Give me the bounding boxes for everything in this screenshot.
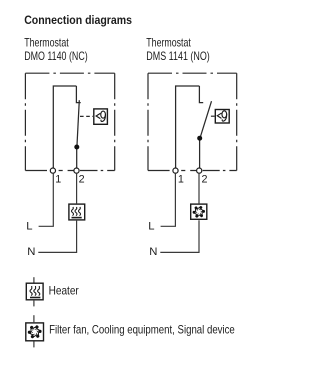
wire: L lead to terminal 1 (DMS) xyxy=(161,173,176,226)
wire: terminal 2 down to heater (DMO) xyxy=(76,173,78,203)
svg-text:Thermostat: Thermostat xyxy=(24,35,69,49)
terminal 1 (DMO) xyxy=(50,168,55,173)
legend fan symbol xyxy=(26,315,44,347)
filter fan load symbol (right circuit) xyxy=(191,204,207,219)
terminal 1 (DMS) xyxy=(173,168,178,173)
svg-text:Filter fan, Cooling equipment,: Filter fan, Cooling equipment, Signal de… xyxy=(49,323,235,337)
svg-text:L: L xyxy=(148,221,154,233)
svg-text:1: 1 xyxy=(55,174,61,186)
svg-text:Connection diagrams: Connection diagrams xyxy=(24,13,132,27)
wire: left riser from terminal 1 and top rail (DMS) xyxy=(176,86,200,171)
legend heater symbol xyxy=(26,277,43,306)
heater load symbol (left circuit) xyxy=(69,204,85,220)
svg-text:L: L xyxy=(26,221,32,233)
mechanical link dashes to thermal actuator (DMO) xyxy=(80,115,93,117)
svg-text:N: N xyxy=(27,246,35,258)
thermal actuator box <ϑ (DMS) xyxy=(215,110,229,124)
wire: heater to N lead (DMO) xyxy=(38,221,76,253)
svg-text:N: N xyxy=(149,246,157,258)
svg-text:DMS 1141 (NO): DMS 1141 (NO) xyxy=(146,49,210,63)
svg-text:DMO 1140 (NC): DMO 1140 (NC) xyxy=(24,49,87,63)
thermal actuator box <ϑ (DMO) xyxy=(94,109,108,124)
switch blade NO open (DMS) xyxy=(200,101,212,139)
node: blade junction dot (DMS) xyxy=(197,136,202,141)
thermostat DMS 1141 enclosure (dash-dot boundary) xyxy=(148,73,237,170)
wire: left riser from terminal 1 and top rail (DMO) xyxy=(53,86,76,171)
wire: blade node to terminal 2 (DMO) xyxy=(76,147,78,171)
terminal 2 (DMO) xyxy=(74,168,79,173)
fixed contact with foot (DMO) xyxy=(76,86,80,103)
svg-text:2: 2 xyxy=(79,174,85,186)
thermostat DMO 1140 enclosure (dash-dot boundary) xyxy=(25,73,114,170)
switch blade NC closed (DMO) xyxy=(77,100,80,149)
svg-text:1: 1 xyxy=(178,174,184,186)
wire: terminal 2 down to fan (DMS) xyxy=(198,173,200,203)
wire: L lead to terminal 1 (DMO) xyxy=(39,173,54,226)
svg-text:2: 2 xyxy=(202,174,208,186)
wire: fan to N lead (DMS) xyxy=(160,220,199,252)
svg-text:Thermostat: Thermostat xyxy=(146,35,191,49)
svg-text:Heater: Heater xyxy=(49,283,79,297)
wire: blade node to terminal 2 (DMS) xyxy=(199,138,201,171)
terminal 2 (DMS) xyxy=(197,168,202,173)
node: blade junction dot (DMO) xyxy=(74,145,79,150)
fixed contact with foot (DMS) xyxy=(199,86,203,103)
mechanical link dash to thermal actuator (DMS) xyxy=(211,115,215,117)
